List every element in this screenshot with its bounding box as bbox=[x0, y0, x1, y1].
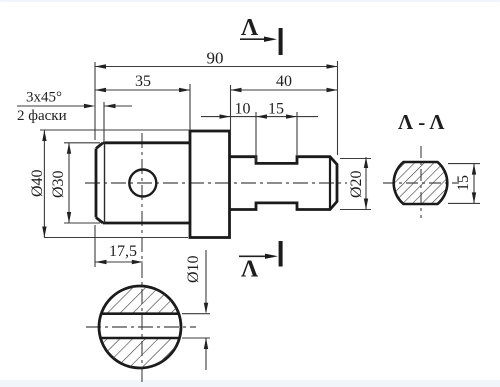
bottom circle hatching upper bbox=[98, 285, 184, 315]
cylinder chamfer end line bbox=[104, 143, 106, 223]
dimension 40 bbox=[231, 88, 338, 92]
shaft chamfer start line bbox=[329, 157, 331, 210]
section cut bottom mark bbox=[239, 241, 283, 267]
extension line left x95 bbox=[94, 62, 96, 267]
svg-text:Λ: Λ bbox=[241, 15, 259, 41]
svg-text:15: 15 bbox=[455, 175, 472, 191]
dimension D20 bbox=[340, 157, 371, 210]
svg-text:Λ - Λ: Λ - Λ bbox=[398, 110, 444, 134]
svg-text:Λ: Λ bbox=[241, 257, 259, 283]
extension line x256 bbox=[255, 112, 257, 162]
hole Ø10 circle bbox=[129, 170, 156, 197]
shaft Ø20 outline with groove bbox=[230, 157, 338, 210]
svg-text:10: 10 bbox=[235, 101, 251, 118]
center line horizontal bottom circle bbox=[86, 326, 196, 328]
svg-text:Ø30: Ø30 bbox=[50, 170, 67, 198]
extension line right x337.5 bbox=[337, 61, 339, 155]
dimension D40 bbox=[40, 130, 189, 238]
dimension 17,5 bbox=[96, 260, 143, 264]
extension line x230.5 bbox=[230, 85, 232, 130]
svg-text:Ø10: Ø10 bbox=[185, 255, 202, 283]
section view shape bbox=[394, 162, 448, 204]
section view center lines bbox=[383, 146, 459, 218]
svg-text:17,5: 17,5 bbox=[109, 243, 137, 260]
dimension 90 bbox=[95, 64, 338, 68]
svg-text:Ø20: Ø20 bbox=[348, 170, 365, 198]
svg-text:Ø40: Ø40 bbox=[29, 169, 46, 197]
dimension 35 bbox=[95, 88, 190, 92]
bottom circle hole chords bbox=[101, 314, 180, 338]
dimension D30 bbox=[64, 143, 100, 223]
center line vertical through hole and bottom circle bbox=[141, 133, 143, 385]
bottom circle hatching lower bbox=[98, 337, 184, 369]
dimension 15 section bbox=[448, 164, 480, 204]
cylinder Ø30 outline bbox=[96, 143, 190, 223]
dimension D10 bbox=[182, 250, 210, 370]
section cut top mark bbox=[240, 28, 283, 55]
extension line x190 bbox=[189, 84, 191, 130]
svg-text:35: 35 bbox=[135, 73, 151, 90]
svg-text:2 фаски: 2 фаски bbox=[17, 108, 67, 124]
svg-text:15: 15 bbox=[268, 101, 284, 118]
svg-text:40: 40 bbox=[276, 73, 292, 90]
svg-text:90: 90 bbox=[207, 49, 224, 68]
center line horizontal main view bbox=[85, 182, 347, 184]
svg-text:3x45°: 3x45° bbox=[26, 90, 62, 106]
chamfer leader 3x45 bbox=[17, 102, 132, 141]
extension line x297 bbox=[296, 112, 298, 155]
bottom circle view bbox=[99, 286, 181, 368]
dimension 10 and 15 bbox=[201, 114, 318, 118]
flange outline bbox=[190, 131, 230, 238]
